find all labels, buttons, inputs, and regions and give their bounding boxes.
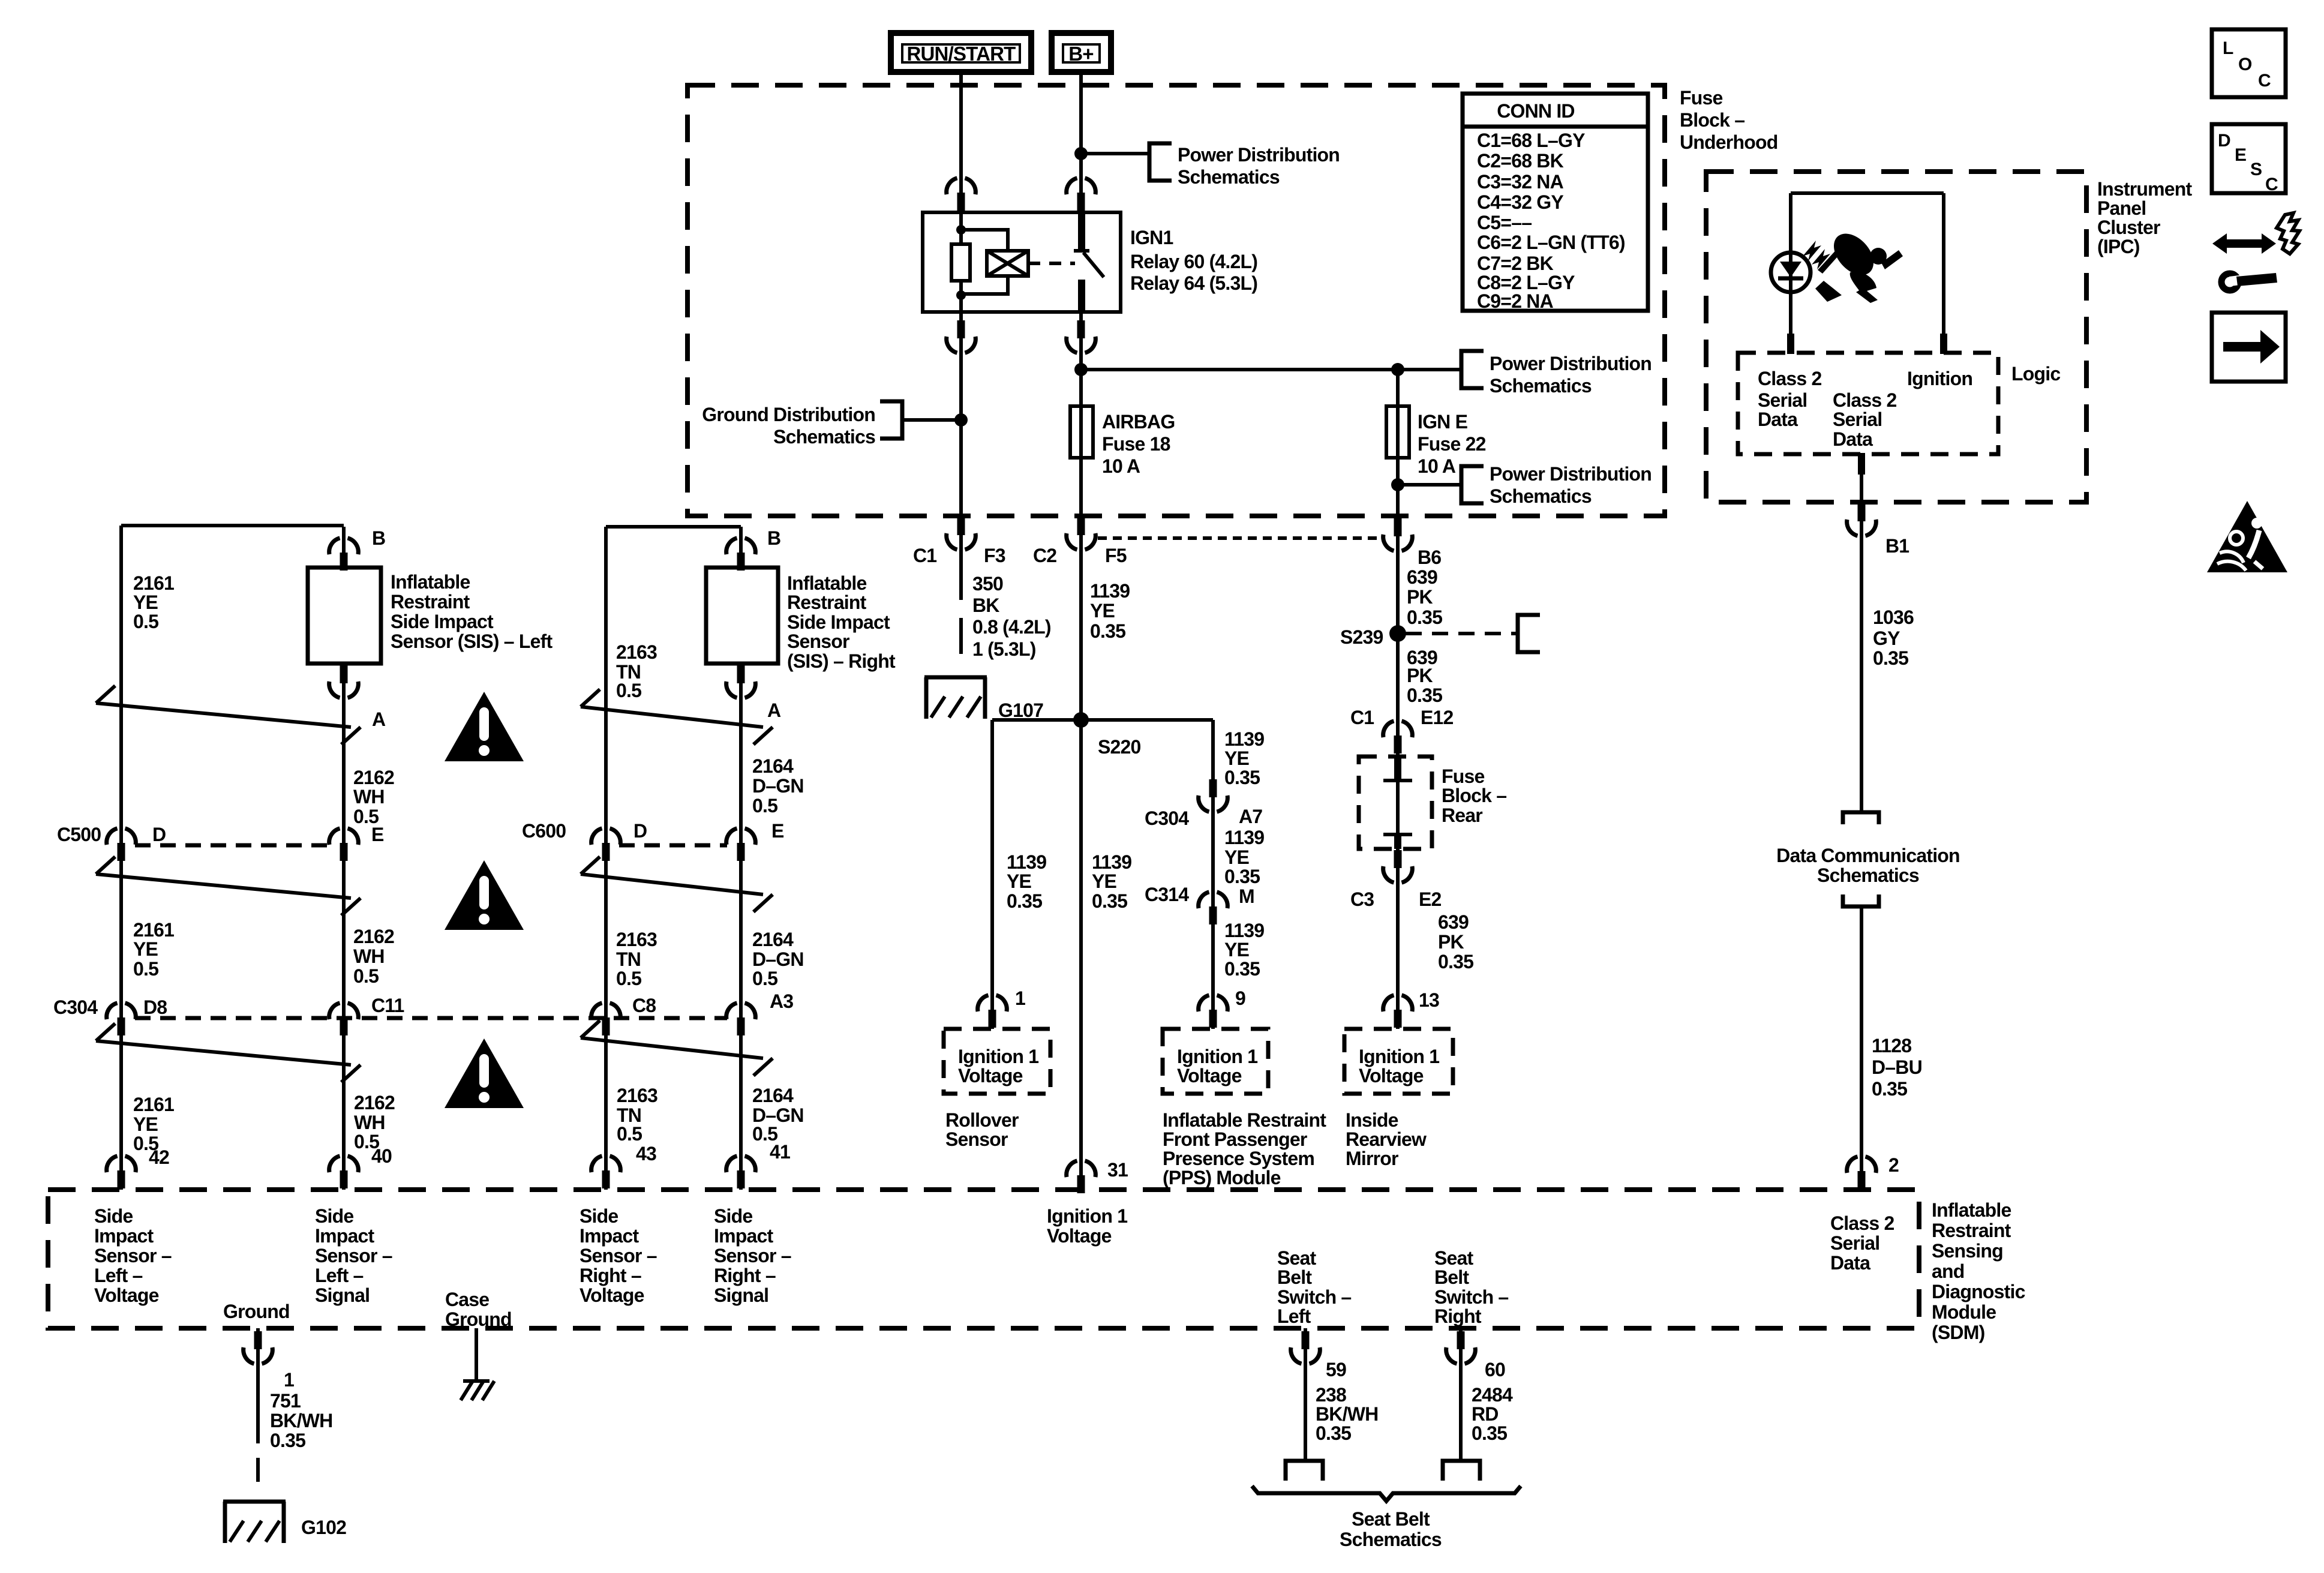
svg-text:YE: YE — [1090, 600, 1115, 622]
svg-text:1139: 1139 — [1224, 728, 1264, 750]
svg-text:Data Communication: Data Communication — [1776, 845, 1960, 866]
svg-text:C314: C314 — [1145, 884, 1189, 905]
svg-text:0.35: 0.35 — [1224, 958, 1260, 980]
svg-text:Class 2: Class 2 — [1758, 368, 1821, 389]
svg-text:639: 639 — [1407, 566, 1437, 588]
svg-text:WH: WH — [354, 1112, 385, 1133]
svg-text:Ground: Ground — [223, 1301, 290, 1322]
svg-text:Schematics: Schematics — [1490, 375, 1592, 397]
svg-text:43: 43 — [636, 1143, 656, 1164]
svg-text:Sensor: Sensor — [945, 1128, 1008, 1150]
svg-text:E: E — [371, 824, 384, 845]
svg-text:0.35: 0.35 — [1316, 1422, 1351, 1444]
svg-text:Side: Side — [315, 1205, 353, 1227]
svg-text:D–BU: D–BU — [1872, 1056, 1922, 1078]
svg-text:Inflatable Restraint: Inflatable Restraint — [1163, 1109, 1326, 1131]
svg-text:AIRBAG: AIRBAG — [1102, 411, 1175, 433]
svg-text:B: B — [372, 527, 385, 549]
svg-text:2161: 2161 — [133, 919, 174, 941]
svg-text:WH: WH — [353, 945, 385, 967]
svg-text:Power Distribution: Power Distribution — [1178, 144, 1340, 166]
svg-text:Voltage: Voltage — [94, 1284, 159, 1306]
svg-text:2162: 2162 — [354, 1092, 395, 1113]
svg-text:Voltage: Voltage — [1359, 1065, 1424, 1086]
svg-text:Class 2: Class 2 — [1833, 389, 1896, 411]
svg-text:L: L — [2223, 38, 2233, 58]
svg-text:Relay 64 (5.3L): Relay 64 (5.3L) — [1130, 272, 1257, 294]
svg-text:0.35: 0.35 — [1872, 1078, 1907, 1100]
svg-text:Panel: Panel — [2097, 197, 2146, 219]
svg-text:2161: 2161 — [133, 1094, 174, 1115]
svg-text:Right –: Right – — [580, 1265, 641, 1286]
svg-text:YE: YE — [1224, 939, 1250, 960]
svg-text:C: C — [2265, 175, 2278, 194]
svg-text:S239: S239 — [1340, 626, 1383, 648]
svg-text:0.5: 0.5 — [752, 968, 777, 989]
svg-text:GY: GY — [1873, 628, 1900, 649]
svg-text:1: 1 — [284, 1369, 294, 1391]
svg-text:Sensor –: Sensor – — [714, 1245, 791, 1266]
svg-text:RD: RD — [1472, 1403, 1499, 1425]
svg-text:Fuse: Fuse — [1680, 87, 1723, 109]
svg-text:TN: TN — [616, 948, 641, 970]
svg-text:PK: PK — [1407, 665, 1433, 686]
svg-text:Switch –: Switch – — [1434, 1286, 1508, 1308]
svg-text:31: 31 — [1107, 1159, 1128, 1181]
svg-text:Data: Data — [1830, 1252, 1870, 1274]
svg-text:A3: A3 — [770, 990, 793, 1012]
svg-text:Ignition 1: Ignition 1 — [1047, 1205, 1127, 1227]
svg-text:Signal: Signal — [714, 1284, 768, 1306]
svg-text:Ignition 1: Ignition 1 — [958, 1046, 1038, 1067]
svg-text:2162: 2162 — [353, 926, 394, 947]
svg-text:C8: C8 — [632, 995, 656, 1016]
svg-text:0.35: 0.35 — [270, 1430, 305, 1451]
svg-text:E: E — [771, 820, 784, 842]
svg-text:Rollover: Rollover — [945, 1109, 1019, 1131]
svg-text:Sensor: Sensor — [787, 631, 849, 652]
svg-text:1139: 1139 — [1092, 851, 1131, 873]
svg-text:C4=32 GY: C4=32 GY — [1477, 191, 1563, 213]
svg-text:A7: A7 — [1239, 806, 1262, 827]
svg-text:41: 41 — [770, 1141, 790, 1163]
svg-text:C1: C1 — [1350, 707, 1374, 728]
svg-text:Impact: Impact — [714, 1225, 773, 1247]
svg-text:IGN1: IGN1 — [1130, 227, 1173, 248]
svg-text:Side: Side — [580, 1205, 618, 1227]
svg-text:Side Impact: Side Impact — [391, 611, 494, 632]
svg-text:D: D — [633, 820, 647, 842]
svg-text:Voltage: Voltage — [1047, 1225, 1112, 1247]
svg-text:YE: YE — [1007, 870, 1032, 892]
svg-text:0.35: 0.35 — [1224, 866, 1260, 887]
svg-text:2164: 2164 — [752, 1085, 794, 1106]
svg-text:2163: 2163 — [616, 641, 657, 663]
svg-text:Left –: Left – — [315, 1265, 364, 1286]
svg-text:Power Distribution: Power Distribution — [1490, 463, 1652, 485]
svg-text:RUN/START: RUN/START — [906, 43, 1016, 65]
svg-text:Module: Module — [1932, 1301, 1996, 1323]
svg-text:B1: B1 — [1885, 535, 1909, 557]
svg-text:D: D — [2218, 131, 2231, 151]
svg-text:2164: 2164 — [752, 755, 794, 777]
svg-text:0.8 (4.2L): 0.8 (4.2L) — [972, 616, 1051, 638]
svg-text:A: A — [372, 709, 386, 730]
svg-text:YE: YE — [133, 592, 158, 613]
svg-text:Serial: Serial — [1833, 409, 1882, 430]
svg-text:D–GN: D–GN — [752, 775, 804, 797]
svg-text:Case: Case — [445, 1289, 489, 1310]
svg-text:2: 2 — [1888, 1154, 1899, 1176]
svg-text:10 A: 10 A — [1418, 455, 1456, 477]
svg-text:Impact: Impact — [580, 1225, 639, 1247]
svg-text:D: D — [152, 824, 166, 845]
svg-text:2163: 2163 — [616, 929, 657, 950]
svg-text:0.35: 0.35 — [1407, 607, 1442, 628]
svg-text:42: 42 — [149, 1146, 169, 1168]
svg-text:E12: E12 — [1421, 707, 1454, 728]
svg-text:0.5: 0.5 — [752, 795, 777, 816]
svg-text:0.35: 0.35 — [1007, 890, 1042, 912]
svg-text:0.5: 0.5 — [616, 968, 641, 989]
svg-text:2163: 2163 — [617, 1085, 657, 1106]
svg-text:Instrument: Instrument — [2097, 178, 2192, 200]
svg-text:C6=2 L–GN (TT6): C6=2 L–GN (TT6) — [1477, 232, 1625, 253]
svg-text:D–GN: D–GN — [752, 948, 804, 970]
svg-text:0.35: 0.35 — [1092, 890, 1127, 912]
svg-text:0.35: 0.35 — [1090, 620, 1125, 642]
svg-text:YE: YE — [1092, 870, 1117, 892]
svg-text:1: 1 — [1015, 987, 1025, 1009]
svg-text:Mirror: Mirror — [1346, 1148, 1398, 1169]
svg-text:0.5: 0.5 — [616, 680, 641, 701]
svg-text:Relay 60 (4.2L): Relay 60 (4.2L) — [1130, 251, 1257, 272]
svg-text:C2=68 BK: C2=68 BK — [1477, 150, 1564, 172]
svg-text:Power Distribution: Power Distribution — [1490, 353, 1652, 374]
svg-text:2164: 2164 — [752, 929, 794, 950]
svg-text:C304: C304 — [1145, 807, 1189, 829]
svg-text:E2: E2 — [1419, 888, 1442, 910]
svg-text:Inflatable: Inflatable — [1932, 1199, 2011, 1221]
svg-text:0.5: 0.5 — [617, 1123, 642, 1145]
svg-text:Belt: Belt — [1277, 1266, 1312, 1288]
svg-text:2161: 2161 — [133, 572, 174, 594]
svg-text:0.35: 0.35 — [1407, 685, 1442, 706]
svg-text:B+: B+ — [1068, 43, 1094, 65]
svg-text:YE: YE — [1224, 846, 1250, 868]
svg-text:Belt: Belt — [1434, 1266, 1469, 1288]
svg-text:C1=68 L–GY: C1=68 L–GY — [1477, 130, 1585, 151]
svg-text:Sensor (SIS) – Left: Sensor (SIS) – Left — [391, 631, 553, 652]
svg-text:Seat: Seat — [1277, 1247, 1317, 1269]
svg-text:A: A — [767, 700, 781, 721]
svg-text:Serial: Serial — [1830, 1232, 1879, 1254]
svg-text:D8: D8 — [143, 996, 167, 1018]
svg-text:1139: 1139 — [1007, 851, 1046, 873]
svg-text:Signal: Signal — [315, 1284, 370, 1306]
svg-text:Rear: Rear — [1442, 804, 1482, 826]
svg-text:(IPC): (IPC) — [2097, 236, 2140, 257]
svg-text:1139: 1139 — [1090, 580, 1130, 602]
svg-text:Front Passenger: Front Passenger — [1163, 1128, 1307, 1150]
svg-text:1 (5.3L): 1 (5.3L) — [972, 638, 1036, 660]
svg-text:C304: C304 — [53, 996, 98, 1018]
svg-text:Class 2: Class 2 — [1830, 1212, 1894, 1234]
svg-text:C1: C1 — [913, 545, 936, 566]
svg-text:Block –: Block – — [1680, 109, 1744, 131]
svg-text:Serial: Serial — [1758, 389, 1807, 411]
svg-text:B: B — [767, 527, 780, 549]
svg-text:350: 350 — [972, 573, 1003, 595]
svg-text:Left –: Left – — [94, 1265, 143, 1286]
svg-text:Schematics: Schematics — [1178, 166, 1280, 188]
svg-text:Presence System: Presence System — [1163, 1148, 1314, 1169]
svg-text:59: 59 — [1326, 1359, 1346, 1380]
svg-text:BK/WH: BK/WH — [270, 1410, 332, 1431]
svg-text:C2: C2 — [1033, 545, 1056, 566]
svg-text:Schematics: Schematics — [1817, 864, 1919, 886]
svg-text:(PPS) Module: (PPS) Module — [1163, 1167, 1281, 1188]
svg-text:Seat: Seat — [1434, 1247, 1474, 1269]
svg-text:Diagnostic: Diagnostic — [1932, 1281, 2025, 1302]
svg-text:Fuse: Fuse — [1442, 766, 1485, 787]
svg-text:Impact: Impact — [94, 1225, 154, 1247]
svg-text:9: 9 — [1235, 987, 1245, 1009]
svg-text:Schematics: Schematics — [1340, 1529, 1442, 1550]
svg-text:1139: 1139 — [1224, 920, 1264, 941]
svg-text:Logic: Logic — [2011, 363, 2060, 385]
svg-text:C: C — [2258, 71, 2271, 91]
svg-text:Sensor –: Sensor – — [580, 1245, 657, 1266]
svg-text:Sensing: Sensing — [1932, 1240, 2003, 1262]
svg-text:C3: C3 — [1350, 888, 1374, 910]
svg-text:Fuse 18: Fuse 18 — [1102, 433, 1170, 455]
svg-text:10 A: 10 A — [1102, 455, 1140, 477]
svg-text:Restraint: Restraint — [391, 591, 470, 613]
svg-text:Ground Distribution: Ground Distribution — [702, 404, 875, 425]
svg-text:Rearview: Rearview — [1346, 1128, 1427, 1150]
svg-text:Sensor –: Sensor – — [94, 1245, 172, 1266]
svg-text:Fuse 22: Fuse 22 — [1418, 433, 1486, 455]
svg-text:Ignition: Ignition — [1907, 368, 1972, 389]
svg-text:PK: PK — [1407, 586, 1433, 608]
svg-text:751: 751 — [270, 1390, 301, 1412]
svg-text:S220: S220 — [1098, 736, 1141, 758]
svg-text:G102: G102 — [301, 1517, 346, 1538]
svg-text:C11: C11 — [371, 995, 404, 1016]
svg-text:Underhood: Underhood — [1680, 131, 1777, 153]
svg-text:(SIS) – Right: (SIS) – Right — [787, 650, 896, 672]
svg-text:YE: YE — [1224, 748, 1250, 769]
svg-text:0.5: 0.5 — [353, 965, 379, 987]
svg-text:Side: Side — [714, 1205, 752, 1227]
svg-text:238: 238 — [1316, 1384, 1346, 1406]
svg-text:F3: F3 — [984, 545, 1005, 566]
svg-text:Impact: Impact — [315, 1225, 374, 1247]
svg-text:Schematics: Schematics — [1490, 485, 1592, 507]
svg-text:Schematics: Schematics — [773, 426, 875, 448]
svg-text:Voltage: Voltage — [1177, 1065, 1242, 1086]
svg-text:YE: YE — [133, 1113, 158, 1135]
svg-text:Side: Side — [94, 1205, 133, 1227]
svg-text:40: 40 — [371, 1145, 392, 1167]
svg-text:M: M — [1239, 885, 1254, 907]
svg-text:0.5: 0.5 — [133, 958, 158, 980]
svg-text:60: 60 — [1485, 1359, 1505, 1380]
svg-text:Left: Left — [1277, 1305, 1311, 1327]
svg-text:Inflatable: Inflatable — [787, 572, 866, 594]
svg-text:Right –: Right – — [714, 1265, 776, 1286]
svg-text:F5: F5 — [1105, 545, 1127, 566]
svg-text:C600: C600 — [522, 820, 566, 842]
svg-text:C500: C500 — [57, 824, 101, 845]
svg-text:Data: Data — [1758, 409, 1798, 430]
svg-text:C7=2 BK: C7=2 BK — [1477, 253, 1554, 274]
svg-text:Sensor –: Sensor – — [315, 1245, 392, 1266]
svg-text:Inside: Inside — [1346, 1109, 1398, 1131]
svg-text:C3=32 NA: C3=32 NA — [1477, 171, 1564, 193]
svg-text:2484: 2484 — [1472, 1384, 1513, 1406]
svg-text:0.35: 0.35 — [1438, 951, 1473, 972]
svg-text:CONN ID: CONN ID — [1497, 100, 1575, 122]
svg-text:C9=2 NA: C9=2 NA — [1477, 290, 1554, 312]
svg-text:1036: 1036 — [1873, 607, 1914, 628]
svg-text:Voltage: Voltage — [580, 1284, 644, 1306]
svg-text:E: E — [2235, 145, 2247, 165]
svg-text:Block –: Block – — [1442, 785, 1506, 806]
svg-text:Switch –: Switch – — [1277, 1286, 1351, 1308]
svg-text:0.35: 0.35 — [1472, 1422, 1507, 1444]
svg-text:639: 639 — [1438, 911, 1469, 933]
svg-text:0.5: 0.5 — [133, 611, 158, 632]
svg-text:Ignition 1: Ignition 1 — [1359, 1046, 1439, 1067]
svg-text:1128: 1128 — [1872, 1035, 1911, 1056]
svg-text:G107: G107 — [998, 700, 1043, 721]
svg-text:2162: 2162 — [353, 767, 394, 788]
svg-text:Right: Right — [1434, 1305, 1482, 1327]
svg-text:Side Impact: Side Impact — [787, 611, 890, 633]
svg-text:B6: B6 — [1418, 547, 1441, 568]
svg-text:Cluster: Cluster — [2097, 217, 2160, 238]
svg-text:Ground: Ground — [445, 1308, 512, 1330]
svg-text:13: 13 — [1419, 989, 1439, 1011]
svg-text:0.35: 0.35 — [1873, 647, 1908, 669]
svg-text:YE: YE — [133, 938, 158, 960]
svg-text:0.35: 0.35 — [1224, 767, 1260, 788]
svg-text:O: O — [2238, 55, 2252, 74]
svg-text:Restraint: Restraint — [1932, 1220, 2011, 1241]
svg-text:C5=––: C5=–– — [1477, 212, 1532, 233]
svg-text:(SDM): (SDM) — [1932, 1322, 1985, 1343]
svg-text:IGN E: IGN E — [1418, 411, 1468, 433]
svg-text:Voltage: Voltage — [958, 1065, 1023, 1086]
svg-text:WH: WH — [353, 786, 385, 807]
svg-text:S: S — [2250, 160, 2262, 179]
svg-text:BK/WH: BK/WH — [1316, 1403, 1378, 1425]
svg-text:BK: BK — [972, 595, 999, 616]
svg-text:Seat Belt: Seat Belt — [1352, 1508, 1430, 1530]
svg-text:Ignition 1: Ignition 1 — [1177, 1046, 1257, 1067]
svg-text:PK: PK — [1438, 931, 1464, 953]
svg-text:and: and — [1932, 1260, 1965, 1282]
svg-text:1139: 1139 — [1224, 827, 1264, 848]
svg-text:Restraint: Restraint — [787, 592, 867, 613]
svg-text:Data: Data — [1833, 428, 1873, 450]
svg-text:Inflatable: Inflatable — [391, 571, 470, 593]
